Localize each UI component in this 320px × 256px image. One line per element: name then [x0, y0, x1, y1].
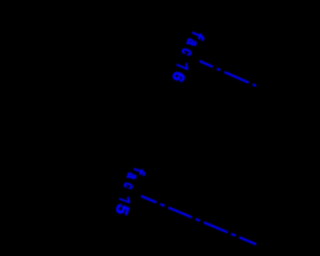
svg-text:fac: fac	[176, 27, 206, 60]
wire: facility line fac 15 (dash-dot centerline)	[141, 196, 262, 247]
svg-text:fac: fac	[118, 163, 148, 193]
wire: facility line fac 16 (dash-dot centerline)	[200, 61, 263, 89]
digit 1 of fac 15 (CAD stroke glyph)	[120, 195, 131, 202]
svg-text:5: 5	[109, 201, 131, 218]
svg-text:6: 6	[166, 67, 188, 84]
CAD view canvas	[0, 0, 256, 256]
digit 1 of fac 16 (CAD stroke glyph)	[177, 61, 189, 69]
